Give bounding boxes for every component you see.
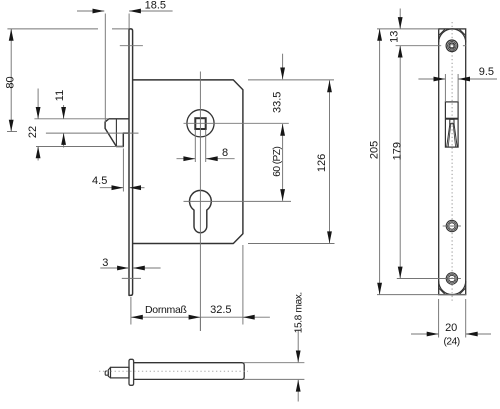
spindle mid section	[111, 367, 130, 378]
follower square 8mm	[195, 118, 205, 129]
hook bolt	[105, 119, 129, 147]
dim 18.5 arrows	[93, 9, 105, 14]
vertical centerline	[199, 72, 201, 332]
svg-text:20: 20	[445, 322, 457, 334]
screw hole bottom	[446, 273, 457, 284]
lock body	[133, 80, 243, 244]
dim 20 line	[411, 333, 439, 335]
ext line hook tip 18.5	[104, 14, 106, 123]
dim 126 arrows	[327, 80, 332, 92]
spindle tip	[108, 367, 110, 377]
svg-text:3: 3	[102, 257, 108, 269]
screw top ticks	[396, 45, 442, 47]
ext line cylinder centerline bottom	[199, 317, 201, 331]
ext line notch 4.5	[122, 149, 124, 192]
svg-text:80: 80	[5, 76, 17, 88]
dim 22 line	[37, 89, 39, 119]
svg-text:15.8 max.: 15.8 max.	[294, 292, 305, 333]
euro profile cylinder hole	[189, 190, 211, 232]
ext line plate top left	[7, 28, 98, 30]
svg-text:(24): (24)	[444, 336, 460, 347]
dim Dornmass line	[131, 316, 200, 318]
dim 8 line	[177, 158, 196, 160]
ref lines 15.8	[244, 362, 305, 364]
faceplate top dome arc	[439, 29, 466, 43]
dim 15.8 arrows	[296, 351, 301, 363]
svg-text:8: 8	[222, 147, 228, 159]
follower circle	[187, 110, 214, 137]
hook tip front view flare	[447, 124, 450, 147]
dim 18.5 line	[77, 10, 104, 12]
ext line body right edge	[242, 245, 244, 325]
ext line hook bottom 22	[36, 146, 123, 148]
dim 9.5 line	[418, 78, 445, 80]
dim 4.5 line	[100, 187, 124, 189]
dim 9.5 arrows	[434, 77, 446, 82]
dim 20 arrows	[427, 332, 439, 337]
bottom screw tick side view	[122, 277, 141, 279]
hook tip front view thick edge	[445, 118, 458, 120]
ext line hook step 11	[46, 132, 139, 134]
dim 126 line	[329, 80, 331, 243]
dim 205 arrows	[377, 29, 382, 41]
screw hole middle	[446, 220, 457, 231]
dim 3 line	[100, 267, 129, 269]
svg-text:60 (PZ): 60 (PZ)	[272, 147, 283, 177]
ext line plate bottom	[377, 294, 466, 296]
dim 205 line	[379, 29, 381, 295]
faceplate front view outline	[439, 29, 466, 295]
spindle centerline	[99, 370, 248, 372]
tick 80 bottom	[7, 131, 17, 133]
dim 33.5 line	[282, 54, 284, 80]
dim 13 arrow	[398, 17, 403, 29]
faceplate corner chamfers	[439, 29, 446, 36]
ext line plate top	[377, 28, 439, 30]
svg-text:205: 205	[368, 141, 380, 159]
top screw tick side view	[120, 45, 143, 47]
ext line faceplate bottom	[130, 297, 132, 325]
screw middle slot and ticks	[443, 225, 447, 227]
dim 15.8 line	[297, 331, 299, 363]
dim 22 arrows	[36, 107, 41, 119]
dim Dornmass arrows	[131, 315, 143, 320]
dim 3 arrows	[117, 266, 129, 271]
svg-text:13: 13	[388, 31, 400, 43]
svg-text:32.5: 32.5	[210, 304, 231, 316]
dim 80 arrows	[9, 29, 14, 41]
spindle flange	[129, 359, 134, 385]
svg-text:4.5: 4.5	[92, 175, 107, 187]
ext line body bottom right	[248, 243, 335, 245]
svg-text:33.5: 33.5	[271, 92, 283, 113]
svg-text:22: 22	[27, 126, 39, 138]
spindle shaft	[134, 363, 245, 380]
faceplate bottom dome arc	[439, 281, 466, 295]
dim 8 arrows	[183, 156, 195, 161]
screw bottom slot and ticks	[397, 278, 447, 280]
hook bolt inner edge	[115, 119, 117, 147]
dim 80 line	[10, 29, 12, 132]
cylinder horizontal centerline	[184, 200, 292, 202]
dim 60 PZ arrows	[280, 124, 285, 136]
dim 13 line	[399, 9, 401, 29]
dim 32.5 line	[200, 316, 270, 318]
hook tip front view center square	[450, 119, 454, 123]
ext line plate front top	[128, 14, 130, 29]
spindle nose	[105, 371, 108, 375]
hook slot front view	[445, 102, 458, 147]
ext lines follower square	[194, 130, 196, 163]
dim 179 arrows	[398, 46, 403, 58]
dim 33.5 arrow top	[280, 68, 285, 80]
dim 60 PZ line	[282, 124, 284, 201]
ext line hook top	[34, 118, 109, 120]
faceplate dashed centerline	[451, 22, 453, 303]
hook slot ext lines 9.5	[444, 74, 446, 102]
follower horizontal centerline	[184, 122, 289, 124]
ext lines 20	[438, 299, 440, 338]
svg-text:179: 179	[391, 142, 403, 160]
dim 32.5 arrow	[243, 315, 255, 320]
screw hole top	[446, 40, 458, 52]
dim 4.5 arrows	[112, 185, 124, 190]
dim 11 arrows	[61, 107, 66, 119]
svg-text:Dornmaß: Dornmaß	[145, 304, 187, 316]
dim 179 line	[399, 46, 401, 279]
svg-text:9.5: 9.5	[479, 66, 494, 78]
faceplate side view	[129, 29, 133, 296]
svg-text:11: 11	[54, 90, 66, 101]
dim 11 line	[63, 105, 65, 119]
svg-text:18.5: 18.5	[145, 0, 166, 12]
ext line body top right	[248, 79, 334, 81]
svg-text:126: 126	[316, 154, 328, 172]
